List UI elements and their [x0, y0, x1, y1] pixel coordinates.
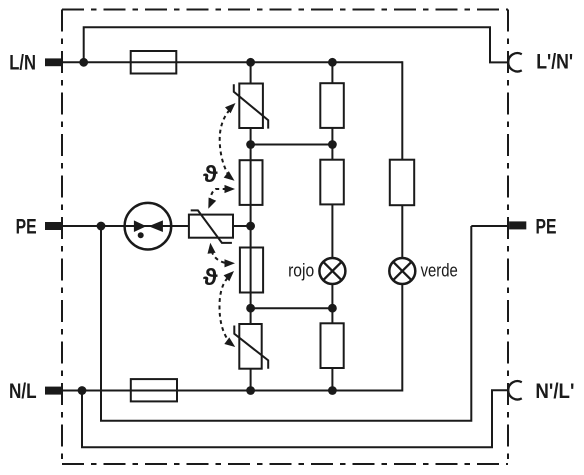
wire middle column main (through both fuses) [250, 128, 252, 324]
node dot row308 middle column [246, 304, 255, 313]
resistor R1 (column2 upper) [320, 83, 344, 128]
resistor R4 (column3) [390, 160, 414, 206]
label PE right [536, 214, 557, 238]
svg-text:ϑ: ϑ [203, 264, 218, 290]
node dot L/N bypass junction [79, 58, 88, 67]
thermal link arrow: varistor RV1 to fuse TF1 (dashed curve) [220, 103, 236, 181]
wire PE right terminal segment [471, 225, 509, 227]
wire N/L row (terminal to right corner) [45, 390, 402, 392]
node dot row308 column2 [328, 304, 337, 313]
svg-text:N/L: N/L [9, 379, 37, 403]
label N/L [9, 379, 37, 403]
node dot row144 middle column [246, 140, 255, 149]
node dot N/L return junction [78, 386, 87, 395]
svg-text:L'/N': L'/N' [536, 50, 573, 74]
svg-text:ϑ: ϑ [203, 161, 218, 187]
wire varistor to middle column node [233, 225, 251, 227]
label theta upper [203, 161, 218, 187]
node dot N/L column2 [328, 386, 337, 395]
wire cross link lower (node row 308) [251, 307, 333, 309]
node dot L/N column2 [328, 58, 337, 67]
varistor RV1 (middle column, upper) [234, 84, 268, 129]
label N'/L' [535, 379, 574, 403]
fuse F2 (N/L input fuse) [131, 379, 177, 401]
svg-text:L/N: L/N [9, 51, 36, 75]
indicator lamp green (verde) [389, 258, 415, 284]
wire middle column top stub [250, 62, 252, 83]
label L/N [9, 51, 36, 75]
wire PE return path (down, across bottom, up to right PE) [101, 226, 471, 421]
thermal fuse TF2 (middle column, lower) [240, 248, 263, 293]
label rojo [288, 259, 314, 280]
fuse F1 (L/N input fuse) [131, 51, 177, 74]
wire column3 lower rise from N/L row [401, 284, 403, 392]
label L'/N' [536, 50, 573, 74]
svg-text:rojo: rojo [288, 259, 314, 280]
resistor R3 (column2 lower) [321, 323, 344, 368]
disconnect arc terminal N'/L' [508, 381, 522, 399]
wire column3 middle (resistor to verde lamp) [401, 205, 403, 258]
varistor RV2 (middle column, lower) [234, 324, 268, 369]
terminal L/N (black tab) [45, 58, 63, 66]
wire bypass L/N to L'/N' (up, across top, down to arc) [84, 27, 509, 62]
svg-text:verde: verde [421, 259, 458, 280]
resistor R2 (column2 middle) [320, 160, 344, 205]
thermal fuse TF1 (middle column, upper) [240, 160, 263, 205]
terminal PE left (black tab) [45, 222, 62, 230]
wire column2 segments [331, 62, 333, 83]
thermal link arrow: fuse TF2 to varistor RV2 (dashed curve) [219, 271, 235, 347]
wire N/L to N'/L' return (down, across, up to arc) [82, 390, 509, 447]
label PE left [16, 214, 37, 238]
label theta lower [203, 264, 218, 290]
thermal link arrow: varistor RV3 to fuse TF2 [208, 243, 236, 268]
terminal PE right (black tab) [509, 221, 526, 229]
varistor RV3 (horizontal, on PE line) [189, 210, 233, 243]
thermal link arrow: fuse TF1 to varistor RV3 [208, 185, 235, 209]
wire PE row left (terminal through gas tube to varistor) [45, 225, 189, 227]
spark gap / gas discharge tube on PE [125, 203, 172, 250]
label verde [421, 259, 458, 280]
enclosure dash-dot border [62, 10, 508, 465]
node dot N/L middle column [246, 386, 255, 395]
svg-text:PE: PE [16, 214, 37, 238]
svg-text:PE: PE [536, 214, 557, 238]
node dot PE return junction [97, 222, 106, 231]
wire cross link upper (node row 144) [251, 144, 333, 146]
indicator lamp red (rojo) [319, 258, 345, 284]
wire middle column bottom stub [250, 369, 252, 392]
node dot row144 column2 [328, 140, 337, 149]
wire L/N row (terminal to right corner) [45, 61, 402, 63]
wire column3 upper drop from L/N row [401, 61, 403, 159]
node dot PE middle column [246, 222, 255, 231]
svg-text:N'/L': N'/L' [535, 379, 574, 403]
node dot L/N middle column [246, 58, 255, 67]
terminal N/L (black tab) [45, 387, 63, 395]
disconnect arc terminal L'/N' [508, 53, 522, 71]
